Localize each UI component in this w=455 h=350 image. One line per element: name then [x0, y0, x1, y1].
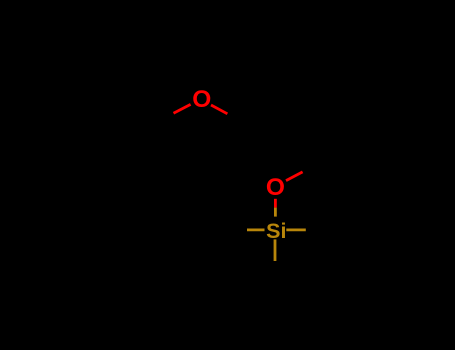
- wire: Si right methyl half-bond: [286, 228, 306, 231]
- svg-text:Si: Si: [266, 219, 286, 243]
- wire: Si tert-butyl half-bond (down): [274, 239, 277, 261]
- wire: O-Si bond, O half (red): [274, 199, 277, 208]
- wire: methoxy O right half-bond: [211, 105, 227, 114]
- wire: Si left methyl half-bond: [247, 228, 265, 231]
- svg-text:O: O: [192, 86, 211, 113]
- wire: methoxy O left half-bond: [174, 104, 191, 113]
- wire: silyl ether O half-bond to ring carbon: [286, 172, 303, 181]
- svg-text:O: O: [266, 174, 285, 201]
- wire: O-Si bond, Si half (gold): [274, 208, 277, 217]
